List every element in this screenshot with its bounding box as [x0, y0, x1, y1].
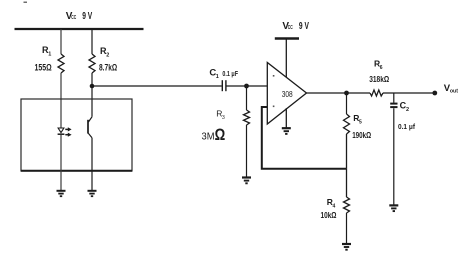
wire C2 to ground	[393, 108, 395, 205]
node A (R2 / phototransistor / C1 junction)	[90, 84, 95, 89]
svg-text:318kΩ: 318kΩ	[369, 74, 389, 84]
wire rail to R2	[91, 29, 93, 54]
label R4	[327, 197, 336, 210]
svg-text:CC: CC	[288, 25, 293, 31]
feedback wire (inverting input loop)	[262, 107, 347, 169]
wire node C to R5	[346, 93, 348, 114]
label R1	[42, 45, 51, 58]
svg-text:1: 1	[216, 74, 219, 80]
wire Vcc bar to op-amp V+ pin	[285, 39, 287, 78]
wire C1 to node B	[227, 85, 247, 87]
label C2	[400, 101, 409, 113]
svg-text:155Ω: 155Ω	[35, 63, 52, 74]
wire node B to op-amp non-inverting input	[247, 85, 268, 87]
resistor R2	[89, 54, 95, 73]
svg-text:0.1 μF: 0.1 μF	[222, 71, 238, 78]
svg-text:CC: CC	[71, 15, 76, 21]
label Vout	[444, 83, 459, 95]
op-amp U1 (308)	[267, 63, 306, 125]
ground (R4)	[342, 244, 351, 250]
wire node A to C1	[92, 85, 222, 87]
svg-text:1: 1	[48, 52, 51, 58]
LED light arrows	[65, 127, 71, 137]
ground (op-amp)	[282, 128, 291, 134]
wire node B to R3	[246, 86, 248, 110]
svg-text:2: 2	[406, 107, 409, 113]
Vcc power rail (top left)	[15, 28, 144, 30]
resistor R4	[344, 197, 350, 213]
svg-text:9 V: 9 V	[82, 11, 92, 22]
wire op-amp output to node C	[307, 92, 347, 94]
optocoupler box	[21, 99, 132, 171]
Vcc stub bar (op-amp)	[275, 37, 299, 39]
svg-text:Ω: Ω	[215, 126, 226, 144]
svg-text:308: 308	[282, 89, 293, 99]
wire op-amp V- pin to ground	[285, 108, 287, 128]
wire R1 to LED anode	[60, 73, 62, 128]
resistor R1	[58, 54, 64, 73]
svg-text:3: 3	[222, 115, 225, 121]
wire node A down to phototransistor collector	[91, 86, 93, 117]
op-amp + input mark	[273, 75, 275, 77]
wire junction to C2	[393, 93, 395, 103]
resistor R3	[244, 110, 250, 125]
svg-text:5: 5	[359, 120, 362, 126]
wire R2 to node A	[91, 73, 93, 86]
svg-text:out: out	[450, 89, 458, 95]
label R6	[374, 59, 383, 72]
capacitor C2	[390, 104, 397, 108]
LED D1 (emitter diode)	[58, 128, 65, 134]
svg-text:10kΩ: 10kΩ	[321, 210, 337, 220]
wire R6 to Vout terminal	[383, 92, 435, 94]
ground (C2)	[389, 205, 398, 211]
svg-text:3M: 3M	[202, 130, 215, 142]
Vout terminal	[432, 91, 437, 96]
wire R4 to ground	[346, 213, 348, 244]
wire LED cathode to ground	[60, 134, 62, 190]
label R5	[353, 113, 362, 126]
svg-text:2: 2	[106, 53, 109, 59]
wire rail to R1	[60, 29, 62, 54]
svg-text:8.7kΩ: 8.7kΩ	[99, 63, 117, 74]
resistor R6	[370, 90, 383, 96]
label C1	[209, 68, 218, 80]
resistor R5	[344, 114, 350, 134]
Vcc 9V label (top left)	[66, 11, 93, 22]
svg-text:0.1 μf: 0.1 μf	[398, 124, 416, 131]
Vcc 9V label (op-amp)	[282, 21, 309, 32]
value 3M ohm	[202, 126, 226, 144]
ground (LED)	[57, 191, 66, 196]
ground (R3)	[242, 178, 251, 184]
wire R5 to node D	[346, 134, 348, 169]
phototransistor Q1	[88, 117, 92, 138]
node C (output / R5 / R6 junction)	[344, 91, 349, 96]
svg-text:9 V: 9 V	[299, 21, 309, 32]
op-amp - input mark	[273, 106, 275, 108]
svg-text:190kΩ: 190kΩ	[352, 130, 371, 140]
stray scan mark (top left)	[24, 1, 28, 3]
svg-text:6: 6	[380, 65, 383, 71]
wire R3 to ground	[246, 125, 248, 177]
label R3	[216, 109, 225, 122]
svg-text:4: 4	[333, 204, 336, 210]
ground (phototransistor)	[88, 191, 97, 196]
wire phototransistor emitter to ground	[91, 138, 93, 191]
wire node D to R4	[346, 169, 348, 197]
capacitor C1	[222, 80, 226, 91]
wire node C to R6	[347, 92, 371, 94]
label R2	[100, 46, 109, 59]
node B (C1 / R3 / op-amp input junction)	[244, 84, 249, 89]
